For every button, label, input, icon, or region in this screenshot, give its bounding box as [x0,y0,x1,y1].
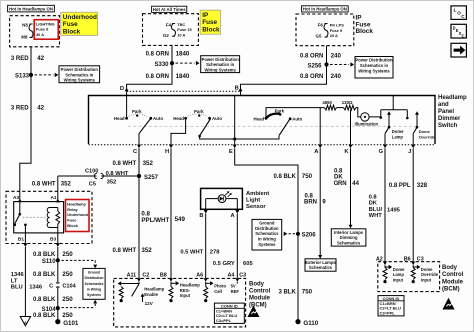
svg-text:Input: Input [421,277,432,282]
svg-text:GRN: GRN [334,181,347,187]
svg-text:Lamp: Lamp [393,272,405,277]
wire 0.8 BLK 750 pin E to ground G110 [235,148,298,321]
fuse element TBC Fuse 15 [172,24,176,37]
svg-text:Body: Body [249,281,265,287]
svg-text:Systems: Systems [87,293,101,297]
svg-text:Power Distribution: Power Distribution [61,67,99,72]
body control module dashed box (right) [378,262,440,292]
svg-text:A11: A11 [127,273,137,279]
svg-text:S257: S257 [144,175,159,181]
svg-text:0.8 ORN: 0.8 ORN [146,74,169,80]
wire node E to bottom edge [234,139,236,145]
wire 1346 LT BLU relay B1 to triangle connector [24,247,26,316]
svg-text:DK: DK [369,201,378,207]
svg-text:REF: REF [231,289,240,294]
svg-text:20 A: 20 A [330,33,338,38]
svg-text:N8: N8 [22,23,28,28]
wire relay A1 to S257 with connector C100/C5 [58,175,97,177]
svg-text:G5: G5 [316,33,322,38]
CONN ID table (left BCM) [214,303,244,323]
svg-text:10 A: 10 A [177,32,185,37]
dome lamp switch output to pin G [384,134,386,145]
svg-text:Schematics in: Schematics in [65,72,94,77]
svg-text:44: 44 [352,181,359,187]
wire 0.8 BLK 250 relay B3 to ground G101 [57,247,59,282]
svg-text:Cell: Cell [214,289,222,294]
svg-text:C3=PPL: C3=PPL [380,310,396,315]
svg-text:605: 605 [243,261,253,267]
svg-text:Ground: Ground [259,221,275,226]
svg-text:G110: G110 [303,320,318,327]
svg-text:Systems: Systems [258,242,276,247]
svg-text:Power Distribution: Power Distribution [355,58,393,63]
svg-text:B8: B8 [160,273,167,279]
svg-text:Module: Module [249,295,271,301]
svg-text:42: 42 [37,55,44,62]
ground G101 [55,319,60,324]
svg-text:Underhood: Underhood [63,14,97,21]
wire 0.8 DK GRN 44 pin K to interior lamps dimming [350,148,352,225]
svg-text:250: 250 [62,296,73,303]
svg-text:BLU/: BLU/ [369,207,383,213]
svg-text:Auto: Auto [153,116,163,121]
label Headlamp Relay Underhood Fuse Block (red box) [66,200,90,232]
svg-text:B1: B1 [18,237,24,243]
svg-text:0.5 WHT: 0.5 WHT [180,250,203,256]
svg-text:Dimmer: Dimmer [438,116,461,122]
splice S330 [170,61,174,65]
svg-text:C: C [462,33,465,38]
svg-text:A4: A4 [227,273,234,279]
svg-text:Lamp: Lamp [392,135,404,140]
svg-text:Dome: Dome [419,129,431,134]
illumination lamp [361,113,369,121]
svg-text:Switch: Switch [438,123,458,129]
svg-text:0.8 WHT: 0.8 WHT [113,248,137,254]
svg-text:and: and [438,102,449,108]
svg-text:in Wiring: in Wiring [87,287,101,291]
switch 2 wiper wire to node E [200,136,235,139]
fuse element PK LPS Fuse 9 [324,24,328,38]
svg-text:S256: S256 [307,63,322,69]
svg-text:1840: 1840 [176,73,190,80]
svg-text:A: A [231,213,235,219]
svg-text:PPL/WHT: PPL/WHT [141,217,169,224]
svg-text:F4: F4 [166,22,172,27]
svg-text:40 A: 40 A [36,32,44,37]
svg-text:Ambient: Ambient [246,191,269,197]
svg-text:1840: 1840 [176,50,190,57]
headlamp relay dashed box (underhood fuse block) [6,191,92,243]
svg-text:B3: B3 [50,237,56,243]
svg-text:Head: Head [114,116,125,121]
svg-text:12V: 12V [145,301,154,306]
reference box Ground Distribution (right) [252,219,282,250]
reference box Exterior Lamps Schematics [305,259,336,271]
svg-text:250: 250 [62,271,73,278]
svg-text:Head: Head [173,116,184,121]
headlamp switch dotted bottom edge [89,144,436,146]
svg-text:B: B [199,213,203,219]
svg-text:A6: A6 [196,273,203,279]
svg-text:E: E [229,149,233,155]
12V source [142,296,144,302]
label Hot At All Times [152,6,187,12]
svg-text:Wiring Systems: Wiring Systems [64,78,96,83]
svg-text:H: H [165,149,169,155]
nav button next arrow [451,43,466,57]
svg-text:Distribution: Distribution [255,226,279,231]
splice S110 [56,258,60,262]
svg-text:549: 549 [175,216,186,223]
wire 0.8 WHT 352 S257 to BCM A11 [138,176,140,278]
svg-text:3 RED: 3 RED [11,56,29,62]
svg-text:Illumination: Illumination [355,121,379,126]
svg-text:750: 750 [302,289,313,296]
wire 0.8 PPL/WHT 549 pin H to BCM B8 [170,148,172,278]
svg-text:S110: S110 [42,259,56,265]
svg-text:42: 42 [37,105,44,112]
splice S206 [296,232,300,236]
switch 2 head contact wire to pin H [171,118,186,145]
svg-text:Auto: Auto [212,116,222,121]
svg-text:0.8 BLK: 0.8 BLK [33,297,56,303]
IP fuse block dashed box (middle) [143,14,199,46]
dome lamp switch [388,114,390,127]
svg-text:WHT: WHT [369,213,383,219]
svg-text:5V: 5V [231,284,236,289]
dashed arrow S110 to ground distribution box [62,259,96,261]
svg-text:Hot At All Times: Hot At All Times [153,7,186,12]
svg-text:Distribution: Distribution [84,276,103,280]
svg-text:Override: Override [421,272,439,277]
svg-text:352: 352 [107,180,117,186]
svg-text:A2: A2 [376,257,383,263]
headlamp enable switch [132,284,139,296]
svg-text:REG-: REG- [180,288,191,293]
svg-text:G2: G2 [163,33,169,38]
svg-text:Headlamp: Headlamp [438,95,467,101]
svg-text:(BCM): (BCM) [249,302,267,308]
svg-text:Head: Head [253,116,264,121]
svg-text:Fuse: Fuse [63,21,78,28]
svg-text:Photo: Photo [214,284,226,289]
svg-text:0.8 ORN: 0.8 ORN [146,51,169,57]
bus drop to node E [234,96,236,140]
svg-text:0.8 BLK: 0.8 BLK [33,252,56,258]
svg-text:0.5 GRY: 0.5 GRY [213,261,235,267]
svg-text:(BCM): (BCM) [442,287,460,293]
nav button LOC [451,6,466,20]
svg-text:Light: Light [246,197,260,203]
svg-text:Hot In Headlamps ON: Hot In Headlamps ON [9,7,53,12]
reference box Interior Lamps Dimming Schematics [331,229,366,246]
fuse LIGHTING Fuse 8 40A (red box) [34,20,58,40]
headlamp switch internal bus / box outline [89,96,436,145]
svg-text:DK: DK [334,175,343,181]
svg-text:Schematics: Schematics [85,282,104,286]
svg-text:352: 352 [141,247,152,254]
svg-text:J: J [408,149,411,155]
switch 3 output wire joining pin E drop [235,136,279,139]
dashed reference arrow from S133 [35,74,54,76]
switch 3 feed from head contact to resistors [266,108,325,119]
dashed reference arrow from S256 [330,64,349,66]
svg-text:S104: S104 [42,307,57,313]
svg-text:Headlamp: Headlamp [180,283,200,288]
switch 3 bold park arc [266,114,280,119]
svg-text:LT: LT [11,278,18,284]
fuse element F8 [29,24,33,38]
svg-text:Fuse: Fuse [202,19,217,26]
svg-text:Schematics: Schematics [309,265,333,270]
svg-text:3 RED: 3 RED [11,106,29,112]
svg-text:1495: 1495 [387,207,401,213]
dome override input resistor [412,265,414,267]
svg-text:M8: M8 [21,34,28,39]
svg-text:352: 352 [143,160,154,167]
svg-text:Dome: Dome [393,267,405,272]
underhood fuse block dashed box [10,16,60,47]
svg-text:Headlamp: Headlamp [67,202,86,207]
svg-text:Block: Block [63,28,81,35]
dome override switch output to pin J [412,134,414,145]
svg-text:0.8: 0.8 [369,195,378,201]
label IP Fuse Block (yellow) [200,10,221,34]
svg-text:Underhood: Underhood [67,212,88,217]
svg-text:D: D [120,86,124,92]
svg-text:Park: Park [194,109,204,114]
svg-text:0.8 ORN: 0.8 ORN [300,74,323,80]
svg-text:Wiring Systems: Wiring Systems [204,68,236,73]
dome feed right stub [406,110,408,117]
svg-text:Override: Override [419,135,436,140]
svg-text:Dome: Dome [421,267,433,272]
svg-text:Schematics: Schematics [255,231,279,236]
svg-text:L: L [454,7,457,12]
svg-text:G: G [379,149,384,155]
splice S257 [137,174,141,178]
svg-text:0.8: 0.8 [305,193,314,199]
svg-text:Park: Park [132,109,142,114]
svg-text:0.8: 0.8 [334,168,343,174]
svg-text:Input: Input [393,277,404,282]
wire 0.8 WHT 352 pin C to S257 [138,148,140,176]
photodiode symbol [218,195,226,203]
sensor leads [206,198,218,200]
reference box Ground Distribution (left) [83,268,105,299]
splice S104 [56,306,60,310]
svg-text:0.8 PPL: 0.8 PPL [389,183,411,189]
wire 0.5 WHT 278 sensor B to BCM A6 [205,214,207,278]
svg-text:G101: G101 [63,320,79,327]
svg-text:Schematics in: Schematics in [360,63,389,68]
svg-text:Control: Control [442,272,464,278]
relay coil output to pin B3 [57,224,59,244]
svg-text:Power Distribution: Power Distribution [202,57,240,62]
svg-text:750: 750 [302,173,313,180]
switch 1 output wire to pin C [138,134,140,145]
svg-text:328: 328 [417,182,428,189]
svg-text:0.8 WHT: 0.8 WHT [32,181,56,187]
svg-text:Schematics in: Schematics in [206,62,235,67]
svg-text:Relay: Relay [67,207,78,212]
ambient light sensor box [201,188,243,209]
wire 0.8 PPL 328 pin J to BCM B6 [412,148,414,261]
5V REF stub [236,282,238,284]
body control module dashed box (left) [114,278,246,327]
dome lamp input resistor [384,265,386,267]
switch 3 wiper arm [279,119,290,135]
mechanical link dashed line [128,125,420,127]
wire 0.5 GRY 605 sensor A to BCM A4 [236,214,238,278]
ground G110 [295,319,300,324]
svg-text:B: B [235,86,239,92]
svg-text:Module: Module [442,279,464,285]
dashed reference arrow from S330 [176,62,195,64]
switch 2 wiper arm [200,119,211,136]
wire 0.8 ORN 240 from fuse to switch pin B [241,46,327,91]
wire 0.8 BRN 9 pin A to exterior lamps [319,148,321,255]
svg-text:Input: Input [180,293,191,298]
reference box Power Distribution (right) [355,57,393,79]
svg-text:C3: C3 [417,257,424,263]
headlamp enable input: arrow and resistor [138,282,140,284]
svg-text:Headlamp: Headlamp [144,287,164,292]
relay actuate dashed link [23,216,46,218]
headlamp switch dotted top edge with pins D and B [127,90,241,92]
CONN ID table (right BCM) [378,296,404,316]
dome feed bus [381,109,408,111]
svg-text:IP: IP [202,12,209,19]
connector C100 C5 symbol [94,173,97,179]
svg-text:S133: S133 [15,73,30,79]
svg-text:240: 240 [331,73,342,80]
splice S133 [29,73,33,77]
svg-text:0.8 WHT: 0.8 WHT [106,171,129,177]
svg-text:A1: A1 [50,195,56,201]
svg-text:0.8 BLK: 0.8 BLK [273,174,296,180]
svg-text:Ground: Ground [88,271,100,275]
svg-text:C: C [49,283,53,289]
relay body box [14,202,64,233]
label Hot In Headlamps ON (right) [302,6,349,12]
svg-text:C3=PPL: C3=PPL [216,318,232,323]
svg-text:0.8 BLK: 0.8 BLK [33,313,56,319]
switch 1 wiper arm [139,119,150,134]
svg-text:3 BLK: 3 BLK [278,290,296,296]
wire 0.8 ORN 1840 from fuse to switch pin D [127,45,172,91]
svg-text:250: 250 [62,312,73,319]
svg-text:S330: S330 [154,62,169,68]
svg-text:0.8 WHT: 0.8 WHT [113,161,137,167]
svg-text:0.8 ORN: 0.8 ORN [300,54,323,60]
switch 2 head/park/auto (head feeds pin H) [184,117,187,120]
svg-text:250: 250 [62,251,73,258]
svg-text:Block: Block [356,28,374,35]
svg-text:BRN: BRN [304,200,317,206]
svg-text:1346: 1346 [11,272,25,278]
svg-text:A: A [24,320,27,325]
svg-text:BLU: BLU [11,285,23,291]
wire resistor to illumination lamp [356,108,361,117]
relay switch output to pin B1 [24,225,26,244]
dashed reference arrow S206 to ground distribution box [289,233,296,235]
svg-text:240: 240 [331,53,342,60]
svg-text:F6: F6 [318,23,324,28]
dome override switch [416,114,418,127]
svg-text:0.8 BLK: 0.8 BLK [33,272,56,278]
svg-text:B6: B6 [404,257,411,263]
splice S256 [324,62,328,66]
svg-text:352: 352 [61,181,72,187]
svg-text:Wiring Systems: Wiring Systems [358,68,390,73]
svg-text:Dome: Dome [392,129,404,134]
connector C104 [56,282,59,285]
svg-text:C2: C2 [142,273,149,279]
svg-text:Auto: Auto [292,116,302,121]
ESD symbol (right) [442,298,454,310]
label Hot In Headlamps ON (left) [8,5,55,12]
relay switch contact [19,203,21,214]
wire dimmer wiper to pin K [350,110,352,145]
svg-text:Fuse: Fuse [67,218,77,223]
svg-text:C5: C5 [89,182,96,188]
headlamp REG input resistor [170,282,172,287]
svg-text:S206: S206 [302,233,317,239]
svg-text:Sensor: Sensor [246,204,266,210]
svg-text:Enable: Enable [144,292,158,297]
svg-text:in Wiring: in Wiring [258,237,276,242]
switch 1 head/park/auto (feeds pin C) [126,91,128,117]
relay coil [49,207,58,209]
label Underhood Fuse Block (yellow) [61,12,98,35]
svg-text:Block: Block [67,223,78,228]
nav button DESC [451,24,466,38]
wire 0.8 DK BLU/WHT 1495 pin G to BCM A2 [384,148,386,261]
svg-text:C100: C100 [85,168,98,174]
wire lamp to dome feed [369,110,381,117]
svg-text:Hot In Headlamps ON: Hot In Headlamps ON [303,7,347,12]
svg-text:Control: Control [249,288,271,294]
svg-text:1346: 1346 [29,285,43,291]
svg-text:130Ω: 130Ω [342,100,353,105]
svg-text:C3: C3 [239,273,246,279]
IP fuse block dashed box (right) [296,14,354,46]
svg-text:A3: A3 [13,195,19,201]
ESD symbol (left) [248,306,260,318]
reference box Power Distribution (left) [59,66,100,83]
off-page triangle connector [20,317,30,326]
svg-text:Block: Block [202,26,220,33]
photo cell input resistor [205,282,207,287]
svg-text:278: 278 [210,250,220,256]
wire 3 RED 42 from fuse to relay A3 [20,47,31,192]
svg-text:Panel: Panel [438,109,454,115]
wire pin A drop inside switch [319,108,321,145]
dashed arrow S104 to ground distribution box [62,307,96,309]
svg-text:Body: Body [442,265,458,271]
svg-text:C104: C104 [62,283,76,289]
reference box Power Distribution (middle) [201,56,240,73]
svg-text:Schematics: Schematics [337,240,361,245]
